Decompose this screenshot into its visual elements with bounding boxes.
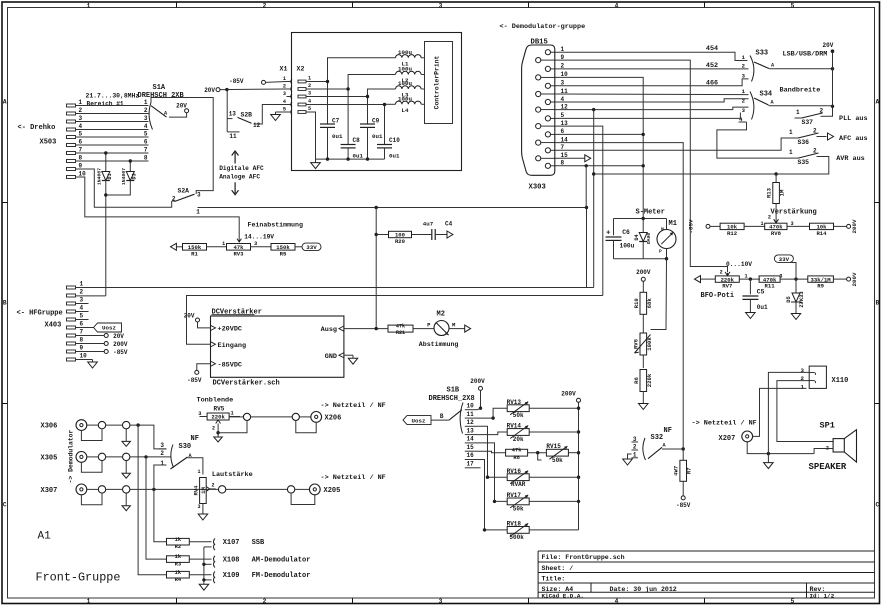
svg-text:13: 13: [229, 111, 237, 118]
svg-text:12: 12: [467, 419, 475, 426]
svg-text:S35: S35: [798, 159, 810, 166]
svg-text:1: 1: [196, 209, 200, 216]
svg-text:9: 9: [79, 163, 83, 170]
svg-text:Title:: Title:: [542, 576, 566, 583]
svg-text:3: 3: [283, 91, 286, 97]
svg-text:RV15: RV15: [546, 443, 561, 450]
svg-text:33V: 33V: [306, 244, 317, 251]
ground X307: [125, 493, 127, 506]
svg-text:SSB: SSB: [252, 539, 265, 547]
svg-text:-85VDC: -85VDC: [218, 361, 242, 369]
svg-text:1N4007: 1N4007: [97, 168, 103, 185]
svg-text:7: 7: [144, 147, 148, 154]
svg-text:3: 3: [160, 442, 164, 449]
svg-text:X1: X1: [280, 66, 288, 73]
svg-text:4: 4: [615, 598, 619, 605]
svg-text:3: 3: [439, 2, 443, 9]
power -85V below R7: [681, 496, 685, 500]
wire S30 pin1 to X307: [154, 465, 159, 489]
svg-text:S-Meter: S-Meter: [636, 209, 665, 217]
svg-text:RV17: RV17: [507, 492, 522, 499]
wire speaker return: [814, 449, 833, 454]
svg-text:X503: X503: [40, 139, 57, 147]
svg-text:3: 3: [80, 297, 84, 304]
svg-text:C: C: [875, 502, 879, 509]
svg-text:R6: R6: [633, 377, 640, 384]
DB15 pins right column: [545, 50, 550, 55]
svg-text:D1: D1: [107, 173, 113, 179]
svg-text:7: 7: [79, 147, 83, 154]
svg-text:2: 2: [801, 375, 805, 382]
svg-text:1: 1: [789, 149, 793, 156]
svg-text:Eingang: Eingang: [218, 342, 247, 350]
wire S1B row10 to 200V: [478, 408, 481, 410]
resistor R7 4W7: [682, 449, 684, 460]
wire R12 to RV8: [744, 225, 765, 227]
svg-text:1M: 1M: [779, 189, 786, 196]
ground X207: [767, 454, 769, 463]
svg-text:10: 10: [467, 402, 475, 409]
resistor R1 150k: [183, 244, 207, 251]
wire S1B row11 to RV13: [478, 408, 508, 418]
svg-text:5: 5: [283, 106, 286, 112]
resistor R8 47k: [506, 449, 528, 456]
power flag 33V: [302, 243, 321, 251]
svg-text:Sheet: /: Sheet: /: [542, 565, 574, 572]
wires X503 rows 1-8 to S1A: [76, 105, 149, 107]
sheet DCVerstaerker box: [211, 316, 344, 377]
svg-text:X108: X108: [223, 556, 240, 564]
potentiometer RV14 20k: [507, 429, 529, 436]
svg-text:1: 1: [87, 598, 91, 605]
connector X503 pins: [67, 104, 76, 107]
resistor R21 47k: [388, 325, 413, 332]
svg-text:200V: 200V: [851, 219, 858, 233]
svg-text:Id: 1/2: Id: 1/2: [810, 592, 835, 599]
svg-text:S2B: S2B: [241, 112, 253, 119]
wire RV3 to R5: [251, 246, 271, 248]
svg-text:5: 5: [79, 131, 83, 138]
connector X403 pins: [67, 286, 76, 289]
svg-text:4: 4: [615, 2, 619, 9]
svg-text:RV3: RV3: [233, 250, 244, 257]
wire row10 down to S-meter rail: [555, 77, 643, 218]
wire row12 to S34 pin3: [555, 107, 749, 110]
svg-text:X205: X205: [324, 487, 341, 495]
svg-text:File: FrontGruppe.sch: File: FrontGruppe.sch: [542, 554, 625, 561]
net arrow M2 out: [449, 328, 465, 330]
svg-text:6: 6: [80, 321, 84, 328]
svg-text:B: B: [875, 300, 879, 307]
X206 shield brackets: [218, 421, 247, 433]
svg-text:-85V: -85V: [688, 219, 695, 233]
svg-text:2: 2: [160, 450, 164, 457]
svg-text:X403: X403: [45, 322, 62, 330]
svg-text:50k: 50k: [513, 505, 524, 512]
svg-text:C6: C6: [622, 229, 630, 236]
resistor R4 1k: [167, 571, 190, 578]
wire X2 pin4 via L4: [306, 105, 385, 145]
svg-text:R21: R21: [396, 330, 405, 336]
svg-text:1: 1: [283, 76, 286, 82]
svg-text:A: A: [875, 99, 879, 106]
resistor R5 150k: [271, 244, 295, 251]
svg-text:2: 2: [80, 289, 84, 296]
svg-text:S37: S37: [802, 119, 814, 126]
wire row4 to S34 pin2: [555, 99, 749, 102]
global label Uosz at X403 pin6: [76, 327, 94, 329]
svg-text:1: 1: [308, 76, 311, 82]
svg-text:S34: S34: [760, 91, 773, 99]
resistor R2 1k: [167, 538, 190, 545]
svg-text:Front-Gruppe: Front-Gruppe: [36, 571, 121, 585]
svg-text:1: 1: [197, 469, 200, 475]
svg-text:C10: C10: [389, 137, 400, 144]
svg-text:X206: X206: [325, 415, 342, 423]
svg-text:4W7: 4W7: [673, 466, 680, 476]
svg-text:R20: R20: [395, 238, 406, 245]
svg-text:68k: 68k: [646, 298, 653, 309]
wire Ausg to R21: [344, 328, 388, 330]
resistor R9 33k/1M: [808, 276, 834, 282]
svg-text:R7: R7: [686, 467, 693, 474]
svg-text:NF: NF: [664, 427, 672, 435]
svg-text:0u1: 0u1: [332, 133, 343, 140]
wire R2 from X307: [154, 489, 167, 541]
svg-text:KiCad E.D.A.: KiCad E.D.A.: [542, 592, 584, 599]
wire S-meter bottom rail: [614, 258, 667, 260]
svg-text:Analoge AFC: Analoge AFC: [219, 174, 260, 181]
net arrow row15: [555, 157, 585, 159]
svg-text:2: 2: [212, 483, 215, 489]
sheet pin +20VDC: [211, 325, 216, 330]
svg-text:4: 4: [308, 99, 311, 105]
DB15 pins left column: [536, 58, 541, 63]
connector X109: [214, 572, 215, 584]
svg-text:0...10V: 0...10V: [726, 261, 752, 268]
zener D5 ZTK33: [795, 279, 797, 293]
power flag 33V BFO: [774, 255, 793, 263]
wire row13 drop to Eingang rail: [555, 126, 603, 295]
svg-text:R8: R8: [513, 455, 519, 461]
wire X503 pin9 to S2A: [76, 169, 172, 207]
resistor R13 1M: [775, 174, 777, 182]
svg-text:DCVerstärker: DCVerstärker: [212, 309, 262, 317]
svg-text:R3: R3: [175, 561, 181, 567]
svg-text:X109: X109: [223, 572, 240, 580]
svg-text:ControlerPrint: ControlerPrint: [434, 55, 441, 109]
capacitor C6 100u polarized: [613, 219, 615, 236]
switch S1B wafer: [460, 403, 463, 434]
svg-text:220k: 220k: [646, 373, 653, 387]
wire X110 pin2 to speaker: [777, 381, 833, 442]
trimpot RV3 47k: [227, 244, 251, 251]
svg-text:<- Demodulator-gruppe: <- Demodulator-gruppe: [500, 23, 586, 31]
wire S2B pin12 to X1 pin4: [254, 105, 287, 125]
wire X403 pin1 rail to DB15 row12 drop: [76, 287, 594, 289]
sheet pin Ausg: [339, 326, 344, 331]
potentiometer RV17 50k: [507, 498, 529, 505]
svg-text:100u: 100u: [398, 66, 412, 73]
svg-text:12: 12: [253, 122, 261, 129]
inductor L4 100u: [396, 101, 422, 104]
svg-text:8: 8: [80, 337, 84, 344]
svg-text:100u: 100u: [398, 49, 412, 56]
connector X1 pins: [291, 79, 292, 84]
svg-text:-85V: -85V: [187, 377, 202, 384]
svg-text:4: 4: [144, 123, 148, 130]
module box ControlerPrint: [292, 33, 462, 171]
inductor L3 100u: [396, 86, 422, 89]
svg-text:1: 1: [87, 2, 91, 9]
svg-text:50k: 50k: [552, 457, 563, 464]
svg-text:SP1: SP1: [820, 421, 835, 431]
wire RV8 to R14: [787, 225, 809, 227]
wire R21 to M2: [413, 328, 434, 330]
svg-text:S1B: S1B: [447, 387, 460, 395]
net arrow C4 out: [447, 231, 453, 238]
wire X306 to S30 pin3 and R4: [130, 425, 167, 449]
potentiometer RV8 470k: [765, 223, 787, 229]
connector X107: [214, 539, 215, 551]
wire diode bus to X403 pin2: [105, 181, 107, 296]
switch S30 wafer: [171, 445, 174, 468]
svg-text:0u1: 0u1: [389, 153, 400, 160]
frame zone ticks top/bottom: [176, 2, 178, 8]
svg-text:S36: S36: [798, 139, 810, 146]
svg-text:5: 5: [791, 2, 795, 9]
svg-text:Bandbreite: Bandbreite: [780, 87, 821, 95]
global label Uosz to S1B: [403, 416, 431, 425]
svg-text:5: 5: [144, 131, 148, 138]
svg-text:R2: R2: [175, 544, 181, 550]
svg-text:R5: R5: [280, 250, 287, 257]
svg-text:4u7: 4u7: [423, 221, 434, 228]
svg-text:200V: 200V: [113, 341, 128, 348]
wire R5 to 33V flag: [295, 246, 303, 248]
wire X403 pins 3-5 stubs: [76, 303, 89, 305]
wire X2 pin5 to module ground: [306, 112, 385, 159]
svg-text:16: 16: [467, 452, 475, 459]
diode D4 OA90: [642, 219, 644, 233]
svg-text:3: 3: [197, 192, 201, 199]
svg-text:2: 2: [144, 107, 148, 114]
svg-text:0u1: 0u1: [757, 304, 768, 311]
svg-text:+: +: [606, 230, 611, 238]
ground X305: [125, 461, 127, 474]
svg-text:P: P: [659, 249, 662, 255]
wire row12 drop to X403 rail: [593, 110, 595, 288]
wire S1B row12 to RV16: [478, 426, 508, 477]
svg-text:DCVerstärker.sch: DCVerstärker.sch: [213, 380, 280, 388]
svg-text:2: 2: [212, 426, 215, 432]
svg-text:X306: X306: [41, 423, 58, 431]
diode D1 1N4007: [105, 153, 107, 172]
capacitor C5 0u1: [749, 279, 751, 294]
svg-text:100u: 100u: [398, 80, 412, 87]
svg-text:Feinabstimmung: Feinabstimmung: [248, 222, 303, 229]
svg-text:8: 8: [144, 155, 148, 162]
wire S1B row13 to RV14: [478, 432, 508, 435]
svg-text:X107: X107: [223, 539, 240, 547]
svg-text:1: 1: [796, 109, 800, 116]
svg-text:1M: 1M: [200, 487, 207, 494]
svg-text:RV6: RV6: [633, 338, 640, 349]
svg-text:Digitale AFC: Digitale AFC: [219, 165, 264, 172]
svg-text:GND: GND: [325, 353, 337, 361]
svg-text:SPEAKER: SPEAKER: [809, 462, 847, 472]
connector X2 pins: [298, 80, 306, 83]
svg-text:3: 3: [439, 598, 443, 605]
svg-text:Uosz: Uosz: [102, 325, 116, 332]
wire S1A common to 20V: [169, 113, 187, 117]
wire S1B row15 to R8: [478, 451, 506, 453]
ground X306: [125, 429, 127, 442]
wire 20V to X1 pin2: [220, 88, 287, 91]
svg-text:-85V: -85V: [676, 502, 691, 509]
wire X110 pin3 loop: [768, 372, 809, 453]
potentiometer RV13 50k: [507, 405, 529, 412]
resistor R12 10k: [720, 223, 744, 229]
svg-text:RV7: RV7: [722, 283, 732, 290]
svg-text:2: 2: [720, 270, 723, 276]
svg-text:9: 9: [80, 345, 84, 352]
resistor R14 10k: [810, 223, 834, 229]
svg-text:Lautstärke: Lautstärke: [212, 471, 253, 479]
svg-text:11: 11: [467, 411, 475, 418]
power 200V at X403 pin8: [76, 343, 105, 345]
svg-text:X307: X307: [41, 487, 58, 495]
svg-text:C8: C8: [353, 137, 361, 144]
svg-text:M1: M1: [669, 220, 677, 228]
svg-text:7: 7: [80, 329, 84, 336]
svg-text:10: 10: [79, 171, 87, 178]
switch S1A wafer: [149, 103, 152, 130]
svg-text:1: 1: [144, 99, 148, 106]
net arrow left R1: [171, 243, 177, 250]
svg-text:R10: R10: [633, 298, 640, 309]
svg-text:10: 10: [80, 353, 88, 360]
wire 20V vertical to S37: [826, 53, 833, 117]
power -85V at DCV: [195, 370, 199, 374]
potentiometer RV7 220k: [715, 276, 739, 282]
potentiometer RV6 100k: [640, 333, 647, 355]
svg-text:AM-Demodulator: AM-Demodulator: [252, 556, 311, 564]
title block: [538, 551, 874, 598]
wire Eingang from rail: [187, 296, 603, 345]
svg-text:Ausg: Ausg: [321, 326, 337, 334]
svg-text:2: 2: [172, 196, 176, 203]
wire -85V to X1 pin1: [266, 81, 287, 84]
power 20V at X403 pin7: [76, 335, 105, 337]
svg-text:<- HFGruppe: <- HFGruppe: [17, 310, 63, 318]
svg-text:21.7...30,8MHz: 21.7...30,8MHz: [86, 93, 140, 100]
resistor R11 470k: [759, 276, 780, 282]
svg-text:R14: R14: [816, 230, 827, 237]
potentiometer RV18 500k: [507, 527, 529, 534]
svg-text:Uosz: Uosz: [412, 417, 426, 424]
svg-text:C: C: [3, 502, 7, 509]
wire R11 to R9: [780, 278, 808, 280]
wire X503 pin10 to RV3 wiper rail: [76, 177, 240, 240]
wire S32 A to drop: [662, 448, 683, 450]
wire RV6 to R6: [642, 355, 644, 368]
X306 shield bracket: [81, 429, 102, 441]
svg-text:-> Netzteil / NF: -> Netzteil / NF: [321, 474, 386, 482]
wire S33 out to 20V node: [769, 68, 833, 70]
svg-text:L4: L4: [402, 107, 409, 114]
wire row3 to S33 pin3 (466): [555, 79, 749, 86]
svg-text:200V: 200V: [470, 378, 485, 385]
capacitor C10 0u1: [377, 144, 392, 146]
wire M1 down to RV6 wiper: [651, 259, 667, 330]
svg-text:S32: S32: [651, 434, 664, 442]
wire X2 pin3 via L3: [306, 96, 368, 98]
wire X207 to X110 pin1: [753, 388, 807, 436]
svg-text:X305: X305: [41, 455, 58, 463]
wire S-meter top rail: [614, 218, 667, 220]
svg-text:50k: 50k: [513, 412, 524, 419]
svg-text:RV4: RV4: [193, 485, 200, 496]
power -85V at X403 pin9: [76, 351, 105, 353]
sheet pin Eingang: [211, 342, 216, 347]
wires inductors to inner module: [421, 57, 424, 59]
wire S34 out to vertical: [769, 105, 833, 107]
svg-text:S33: S33: [756, 50, 769, 58]
svg-text:-85V: -85V: [229, 78, 244, 85]
connector X110: [809, 366, 826, 388]
svg-text:4: 4: [80, 305, 84, 312]
wire row2 to S33 pin2 (452): [555, 68, 749, 70]
X10x common ground: [203, 547, 205, 582]
svg-text:2: 2: [283, 83, 286, 89]
svg-text:6: 6: [79, 139, 83, 146]
svg-text:RV14: RV14: [507, 423, 522, 430]
svg-text:BFO-Poti: BFO-Poti: [701, 292, 735, 300]
ground X1 pin5: [276, 111, 287, 113]
resistor R10: [642, 281, 644, 292]
svg-text:8: 8: [79, 155, 83, 162]
svg-text:Abstimmung: Abstimmung: [419, 341, 459, 348]
svg-text:S1A: S1A: [153, 84, 166, 92]
wire GND to ground: [344, 354, 353, 356]
svg-text:14: 14: [467, 436, 475, 443]
ground module: [315, 159, 317, 163]
RV4 wiper: [206, 487, 210, 492]
wire S2A pin1 rail to Feinabstimmung: [198, 208, 587, 288]
svg-text:RV8: RV8: [771, 230, 782, 237]
wire row9 down to RV7 wiper: [555, 60, 728, 272]
svg-text:5: 5: [80, 313, 84, 320]
wire X307 to S30 pin1 drop and RV4 wiper: [130, 488, 219, 490]
power 20V at S1A: [185, 109, 189, 113]
svg-text:AFC aus: AFC aus: [839, 135, 868, 143]
resistor R6 220k: [640, 370, 647, 392]
X305 shield bracket: [81, 461, 102, 473]
wire row1 to S33 pin1 (454): [555, 52, 748, 60]
svg-text:1N4007: 1N4007: [121, 168, 127, 185]
svg-text:RV5: RV5: [214, 406, 225, 413]
svg-text:454: 454: [706, 45, 718, 53]
svg-text:1: 1: [160, 460, 164, 467]
sheet pin GND: [339, 353, 344, 358]
wire row8 drop to rail207: [585, 166, 587, 208]
svg-text:3: 3: [144, 115, 148, 122]
connector X108: [214, 556, 215, 568]
svg-text:R12: R12: [727, 230, 738, 237]
svg-text:1: 1: [80, 281, 84, 288]
svg-text:100u: 100u: [398, 96, 412, 103]
